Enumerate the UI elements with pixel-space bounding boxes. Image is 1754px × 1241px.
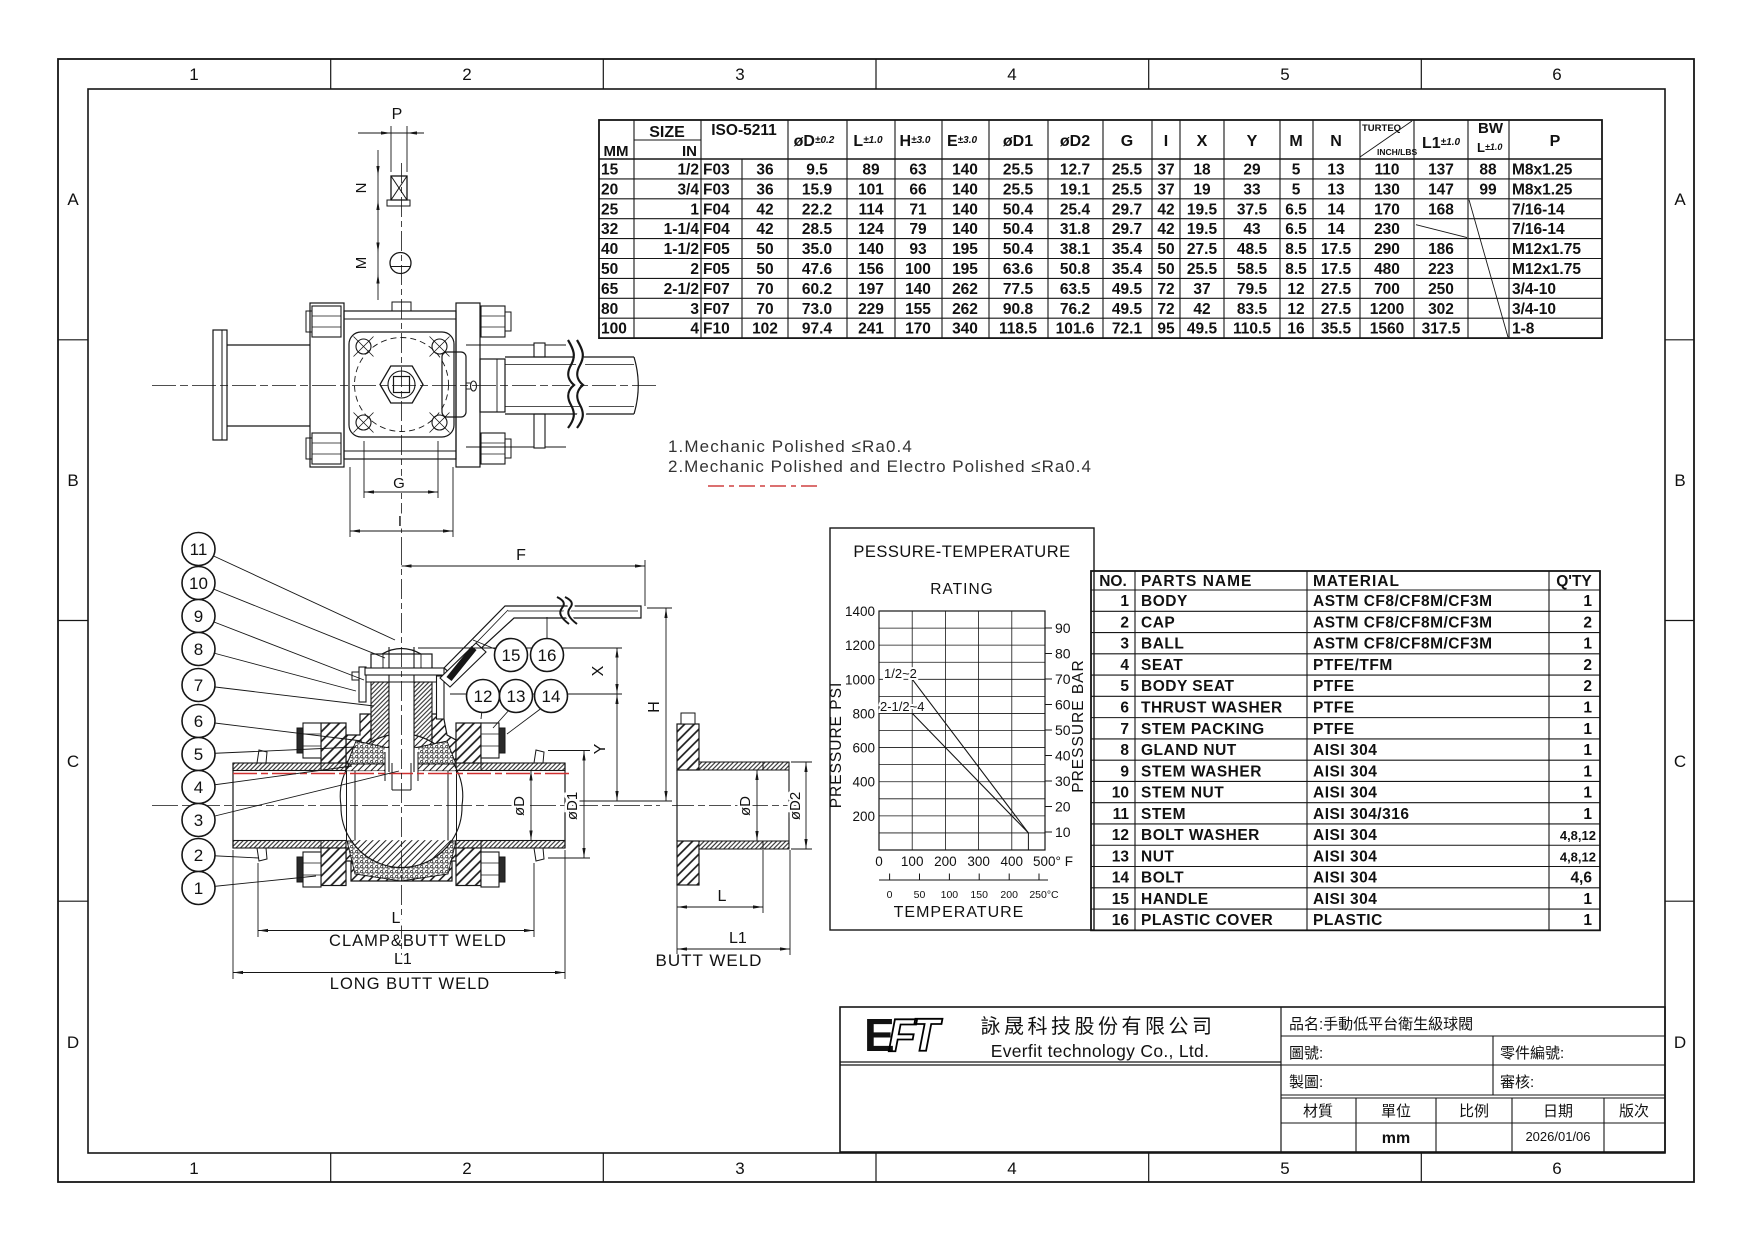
svg-text:250: 250 bbox=[1428, 281, 1454, 298]
svg-text:M: M bbox=[1289, 133, 1302, 150]
svg-text:118.5: 118.5 bbox=[999, 321, 1037, 338]
svg-text:71: 71 bbox=[909, 201, 927, 218]
svg-text:42: 42 bbox=[756, 221, 773, 238]
chart rating curve half to two inch bbox=[912, 679, 1028, 833]
svg-text:13: 13 bbox=[1112, 848, 1130, 865]
svg-text:L: L bbox=[718, 888, 727, 905]
svg-text:X: X bbox=[1197, 133, 1208, 150]
svg-text:700: 700 bbox=[1374, 281, 1400, 298]
svg-text:10: 10 bbox=[1055, 824, 1071, 840]
svg-text:N: N bbox=[353, 183, 370, 194]
svg-text:ISO-5211: ISO-5211 bbox=[711, 122, 777, 139]
svg-text:80: 80 bbox=[1055, 646, 1071, 662]
svg-text:I: I bbox=[398, 513, 402, 530]
svg-text:43: 43 bbox=[1243, 221, 1261, 238]
svg-text:5: 5 bbox=[1292, 181, 1301, 198]
svg-text:35.4: 35.4 bbox=[1112, 241, 1143, 258]
svg-text:27.5: 27.5 bbox=[1187, 241, 1218, 258]
svg-text:1: 1 bbox=[1583, 763, 1592, 780]
svg-text:F04: F04 bbox=[703, 201, 730, 218]
svg-text:25.5: 25.5 bbox=[1187, 261, 1218, 278]
top view right ferrule bbox=[534, 343, 545, 357]
svg-text:1/2: 1/2 bbox=[677, 161, 699, 178]
svg-text:1: 1 bbox=[1583, 891, 1592, 908]
svg-text:ASTM CF8/CF8M/CF3M: ASTM CF8/CF8M/CF3M bbox=[1313, 636, 1493, 653]
front view seat contact lines bbox=[346, 771, 348, 841]
svg-text:300: 300 bbox=[967, 854, 990, 869]
svg-text:600: 600 bbox=[852, 741, 875, 756]
svg-text:76.2: 76.2 bbox=[1060, 301, 1090, 318]
svg-text:17.5: 17.5 bbox=[1321, 261, 1352, 278]
svg-text:PARTS NAME: PARTS NAME bbox=[1141, 573, 1252, 590]
svg-text:2: 2 bbox=[1120, 614, 1129, 631]
svg-text:øD1: øD1 bbox=[1003, 133, 1033, 150]
svg-text:27.5: 27.5 bbox=[1321, 281, 1352, 298]
svg-text:HANDLE: HANDLE bbox=[1141, 891, 1209, 908]
svg-text:50: 50 bbox=[756, 241, 773, 258]
svg-text:2-1/2: 2-1/2 bbox=[664, 281, 699, 298]
front view handle break symbol bbox=[558, 598, 578, 623]
svg-text:2026/01/06: 2026/01/06 bbox=[1525, 1129, 1590, 1144]
BW column strike diagonal bbox=[1469, 200, 1508, 337]
svg-text:AISI 304: AISI 304 bbox=[1313, 785, 1377, 802]
svg-text:材質: 材質 bbox=[1303, 1102, 1333, 1120]
svg-text:AISI 304: AISI 304 bbox=[1313, 827, 1377, 844]
svg-text:72: 72 bbox=[1157, 301, 1174, 318]
svg-text:6: 6 bbox=[1120, 699, 1129, 716]
title block outer box bbox=[840, 1007, 1665, 1152]
svg-text:262: 262 bbox=[952, 301, 978, 318]
svg-text:INCH/LBS: INCH/LBS bbox=[1377, 147, 1417, 157]
svg-text:7: 7 bbox=[1120, 721, 1129, 738]
title block drafting row bbox=[1281, 1094, 1665, 1096]
top view G dimension bbox=[363, 441, 365, 498]
svg-text:øD: øD bbox=[511, 796, 528, 816]
svg-text:NO.: NO. bbox=[1099, 573, 1127, 590]
svg-text:15: 15 bbox=[601, 161, 619, 178]
top view N stem square symbol bbox=[391, 176, 407, 200]
svg-text:250°C: 250°C bbox=[1029, 889, 1059, 901]
svg-text:48.5: 48.5 bbox=[1237, 241, 1268, 258]
svg-text:1400: 1400 bbox=[845, 604, 875, 619]
front view lower body bbox=[346, 848, 456, 881]
svg-text:5: 5 bbox=[1292, 161, 1301, 178]
top view handle bracket bbox=[442, 352, 466, 417]
balloon reference line 15 16 bbox=[418, 647, 622, 649]
svg-text:25.4: 25.4 bbox=[1060, 201, 1091, 218]
svg-text:19: 19 bbox=[1193, 181, 1211, 198]
svg-text:B: B bbox=[67, 471, 78, 490]
svg-text:1: 1 bbox=[1583, 785, 1592, 802]
butt weld fitting pipe bbox=[699, 762, 789, 770]
front view upper body right bbox=[432, 714, 456, 771]
svg-text:3: 3 bbox=[735, 65, 744, 84]
svg-text:50: 50 bbox=[601, 261, 618, 278]
svg-text:X: X bbox=[590, 665, 607, 676]
svg-text:50: 50 bbox=[1055, 722, 1071, 738]
svg-text:197: 197 bbox=[858, 281, 884, 298]
svg-text:11: 11 bbox=[1113, 806, 1130, 823]
front view stem bbox=[389, 644, 414, 780]
parts table grid bbox=[1091, 571, 1600, 930]
svg-text:223: 223 bbox=[1428, 261, 1454, 278]
butt weld fitting flange bbox=[677, 724, 699, 770]
svg-text:詠晟科技股份有限公司: 詠晟科技股份有限公司 bbox=[981, 1015, 1216, 1038]
svg-text:19.5: 19.5 bbox=[1187, 221, 1218, 238]
svg-text:100: 100 bbox=[601, 321, 627, 338]
svg-text:14: 14 bbox=[542, 687, 561, 706]
top view right cap bolts bbox=[481, 306, 505, 337]
svg-text:審核:: 審核: bbox=[1500, 1074, 1534, 1091]
svg-text:M: M bbox=[353, 257, 370, 270]
top view M stem circle symbol bbox=[390, 253, 411, 274]
svg-text:47.6: 47.6 bbox=[802, 261, 833, 278]
svg-text:C: C bbox=[67, 752, 79, 771]
butt weld fitting oD2 dimension bbox=[791, 761, 812, 763]
svg-text:290: 290 bbox=[1374, 241, 1400, 258]
svg-text:262: 262 bbox=[952, 281, 978, 298]
svg-text:35.0: 35.0 bbox=[802, 241, 832, 258]
svg-text:29.7: 29.7 bbox=[1112, 221, 1142, 238]
svg-text:95: 95 bbox=[1157, 321, 1175, 338]
svg-text:14: 14 bbox=[1327, 221, 1345, 238]
svg-text:øD2: øD2 bbox=[1060, 133, 1090, 150]
svg-text:20: 20 bbox=[1055, 799, 1071, 815]
top view body bbox=[344, 311, 456, 459]
svg-text:65: 65 bbox=[601, 281, 619, 298]
title block product name row bbox=[1281, 1035, 1665, 1037]
svg-text:PTFE/TFM: PTFE/TFM bbox=[1313, 657, 1393, 674]
svg-text:37: 37 bbox=[1157, 181, 1174, 198]
svg-text:70: 70 bbox=[756, 301, 773, 318]
svg-text:7: 7 bbox=[194, 676, 203, 695]
svg-text:12.7: 12.7 bbox=[1060, 161, 1090, 178]
front view ball arcs in bore bbox=[340, 771, 351, 841]
svg-text:15: 15 bbox=[1112, 891, 1130, 908]
svg-text:200: 200 bbox=[1000, 889, 1018, 901]
svg-text:ASTM CF8/CF8M/CF3M: ASTM CF8/CF8M/CF3M bbox=[1313, 614, 1493, 631]
svg-text:1: 1 bbox=[1583, 742, 1592, 759]
front view right cap bbox=[456, 723, 481, 763]
butt weld fitting L1 dimension bbox=[789, 850, 791, 955]
svg-text:72.1: 72.1 bbox=[1112, 321, 1143, 338]
svg-text:195: 195 bbox=[952, 241, 978, 258]
svg-text:70: 70 bbox=[1055, 671, 1071, 687]
svg-text:GLAND NUT: GLAND NUT bbox=[1141, 742, 1237, 759]
svg-text:日期: 日期 bbox=[1543, 1103, 1573, 1120]
svg-text:100: 100 bbox=[905, 261, 931, 278]
svg-text:TURTEQ: TURTEQ bbox=[1362, 123, 1401, 134]
svg-text:13: 13 bbox=[1327, 161, 1345, 178]
top view left cap bolts bbox=[312, 306, 341, 337]
svg-text:I: I bbox=[1164, 133, 1168, 150]
dimension H bbox=[665, 608, 667, 801]
svg-text:1: 1 bbox=[194, 879, 203, 898]
svg-text:F: F bbox=[516, 547, 526, 564]
svg-text:F05: F05 bbox=[703, 261, 730, 278]
svg-text:22.2: 22.2 bbox=[802, 201, 832, 218]
svg-text:TEMPERATURE: TEMPERATURE bbox=[894, 904, 1025, 921]
svg-text:42: 42 bbox=[1157, 221, 1174, 238]
butt weld fitting centerline bbox=[672, 805, 800, 807]
svg-text:6: 6 bbox=[194, 712, 203, 731]
svg-text:3/4-10: 3/4-10 bbox=[1512, 281, 1556, 298]
chart curve end drop line bbox=[1027, 833, 1029, 850]
svg-text:F03: F03 bbox=[703, 181, 730, 198]
svg-text:155: 155 bbox=[905, 301, 931, 318]
svg-text:M12x1.75: M12x1.75 bbox=[1512, 261, 1581, 278]
svg-text:186: 186 bbox=[1428, 241, 1454, 258]
svg-text:1: 1 bbox=[1583, 699, 1592, 716]
front view lower seat ring bbox=[347, 841, 456, 881]
svg-text:BUTT WELD: BUTT WELD bbox=[656, 951, 763, 970]
svg-text:STEM PACKING: STEM PACKING bbox=[1141, 721, 1265, 738]
svg-text:17.5: 17.5 bbox=[1321, 241, 1352, 258]
svg-text:302: 302 bbox=[1428, 301, 1454, 318]
svg-text:90.8: 90.8 bbox=[1003, 301, 1034, 318]
svg-text:77.5: 77.5 bbox=[1003, 281, 1034, 298]
front view upper body left bbox=[346, 714, 371, 771]
svg-text:66: 66 bbox=[909, 181, 927, 198]
svg-text:12: 12 bbox=[1112, 827, 1129, 844]
svg-text:13: 13 bbox=[507, 687, 526, 706]
svg-text:8.5: 8.5 bbox=[1285, 241, 1307, 258]
svg-text:4: 4 bbox=[194, 778, 203, 797]
svg-text:70: 70 bbox=[756, 281, 773, 298]
svg-text:229: 229 bbox=[858, 301, 884, 318]
svg-text:400: 400 bbox=[1001, 854, 1024, 869]
svg-text:32: 32 bbox=[601, 221, 618, 238]
svg-text:102: 102 bbox=[752, 321, 778, 338]
front view handle washer plate bbox=[365, 668, 444, 675]
svg-text:50.4: 50.4 bbox=[1003, 241, 1034, 258]
svg-text:5: 5 bbox=[1120, 678, 1129, 695]
svg-text:圖號:: 圖號: bbox=[1289, 1045, 1323, 1062]
svg-text:800: 800 bbox=[852, 706, 875, 721]
svg-text:20: 20 bbox=[601, 181, 618, 198]
svg-text:PTFE: PTFE bbox=[1313, 721, 1355, 738]
svg-text:37.5: 37.5 bbox=[1237, 201, 1268, 218]
svg-text:1: 1 bbox=[1583, 912, 1592, 929]
svg-text:LONG BUTT WELD: LONG BUTT WELD bbox=[330, 975, 490, 993]
dimension oD1 bbox=[583, 751, 585, 859]
svg-text:35.5: 35.5 bbox=[1321, 321, 1352, 338]
svg-text:42: 42 bbox=[1157, 201, 1174, 218]
svg-text:25.5: 25.5 bbox=[1003, 161, 1034, 178]
front view clamp lips bbox=[257, 750, 267, 763]
svg-text:31.8: 31.8 bbox=[1060, 221, 1091, 238]
balloons 1-11 bbox=[182, 533, 215, 566]
svg-text:3/4: 3/4 bbox=[677, 181, 699, 198]
svg-text:BW: BW bbox=[1478, 120, 1504, 137]
svg-text:168: 168 bbox=[1428, 201, 1454, 218]
balloon leader lines 1-11 bbox=[199, 549, 396, 640]
top view centerline horizontal bbox=[152, 385, 658, 387]
svg-text:49.5: 49.5 bbox=[1187, 321, 1218, 338]
front view stem washer plate bbox=[359, 667, 366, 702]
svg-text:øD2: øD2 bbox=[787, 792, 804, 820]
chart box bbox=[830, 528, 1094, 930]
svg-text:35.4: 35.4 bbox=[1112, 261, 1143, 278]
svg-text:42: 42 bbox=[756, 201, 773, 218]
dimension L1 long bbox=[232, 850, 234, 979]
svg-text:1200: 1200 bbox=[1370, 301, 1404, 318]
dimension X bbox=[616, 648, 618, 695]
svg-text:2: 2 bbox=[194, 846, 203, 865]
svg-text:4,8,12: 4,8,12 bbox=[1560, 849, 1596, 864]
svg-text:156: 156 bbox=[858, 261, 884, 278]
front view stem packing right bbox=[414, 682, 432, 771]
svg-text:4: 4 bbox=[690, 321, 699, 338]
svg-text:27.5: 27.5 bbox=[1321, 301, 1352, 318]
top view stem hex nut bbox=[380, 366, 423, 403]
svg-text:A: A bbox=[1674, 190, 1686, 209]
top view bolt circle dashed bbox=[355, 338, 449, 432]
svg-text:63.6: 63.6 bbox=[1003, 261, 1034, 278]
svg-text:60: 60 bbox=[1055, 697, 1071, 713]
svg-text:19.1: 19.1 bbox=[1060, 181, 1091, 198]
front view ball upper dome bbox=[346, 734, 457, 771]
svg-text:N: N bbox=[1330, 133, 1342, 150]
top view centerline vertical bbox=[401, 163, 403, 545]
front view right pipe walls bbox=[456, 763, 565, 771]
svg-text:100: 100 bbox=[901, 854, 924, 869]
dimension F bbox=[402, 565, 646, 567]
svg-text:A: A bbox=[67, 190, 79, 209]
front view gland nut bbox=[366, 681, 438, 683]
svg-text:SIZE: SIZE bbox=[649, 124, 685, 141]
svg-text:50: 50 bbox=[1157, 261, 1174, 278]
top view left tube bbox=[227, 344, 310, 346]
svg-text:3: 3 bbox=[690, 301, 699, 318]
svg-text:1.Mechanic Polished ≤Ra0.4: 1.Mechanic Polished ≤Ra0.4 bbox=[668, 437, 913, 456]
svg-text:1560: 1560 bbox=[1370, 321, 1404, 338]
svg-text:80: 80 bbox=[601, 301, 618, 318]
svg-text:øD1: øD1 bbox=[564, 792, 581, 820]
svg-text:25: 25 bbox=[601, 201, 619, 218]
chart plot grid bbox=[879, 611, 1045, 850]
svg-text:F04: F04 bbox=[703, 221, 730, 238]
svg-text:49.5: 49.5 bbox=[1112, 301, 1143, 318]
svg-text:83.5: 83.5 bbox=[1237, 301, 1268, 318]
svg-text:40: 40 bbox=[1055, 748, 1071, 764]
top view left ferrule bbox=[213, 330, 227, 440]
svg-text:1-8: 1-8 bbox=[1512, 321, 1535, 338]
svg-text:THRUST WASHER: THRUST WASHER bbox=[1141, 699, 1283, 716]
svg-text:50.4: 50.4 bbox=[1003, 221, 1034, 238]
svg-text:1: 1 bbox=[1583, 806, 1592, 823]
svg-text:4: 4 bbox=[1120, 657, 1129, 674]
svg-text:D: D bbox=[67, 1033, 79, 1052]
svg-text:38.1: 38.1 bbox=[1060, 241, 1091, 258]
svg-text:10: 10 bbox=[1112, 785, 1129, 802]
svg-text:5: 5 bbox=[1280, 1159, 1289, 1178]
svg-text:AISI 304: AISI 304 bbox=[1313, 870, 1377, 887]
svg-text:CAP: CAP bbox=[1141, 614, 1175, 631]
svg-text:6.5: 6.5 bbox=[1285, 201, 1307, 218]
svg-text:97.4: 97.4 bbox=[802, 321, 833, 338]
svg-text:D: D bbox=[1674, 1033, 1686, 1052]
front view ball lower dome bbox=[351, 841, 452, 868]
svg-text:AISI 304: AISI 304 bbox=[1313, 742, 1377, 759]
svg-text:63: 63 bbox=[909, 161, 927, 178]
svg-text:480: 480 bbox=[1374, 261, 1400, 278]
svg-text:F05: F05 bbox=[703, 241, 730, 258]
svg-text:89: 89 bbox=[862, 161, 880, 178]
svg-text:2: 2 bbox=[1583, 657, 1592, 674]
svg-text:88: 88 bbox=[1479, 161, 1497, 178]
zone divider ticks bbox=[330, 59, 332, 89]
front view vertical centerline bbox=[401, 545, 403, 955]
svg-text:28.5: 28.5 bbox=[802, 221, 833, 238]
svg-text:6: 6 bbox=[1552, 65, 1561, 84]
svg-text:1-1/2: 1-1/2 bbox=[664, 241, 699, 258]
svg-text:37: 37 bbox=[1193, 281, 1210, 298]
svg-text:CLAMP&BUTT WELD: CLAMP&BUTT WELD bbox=[329, 932, 507, 950]
balloons 12 13 14 15 16 bbox=[495, 639, 528, 672]
svg-text:101: 101 bbox=[858, 181, 884, 198]
svg-text:147: 147 bbox=[1428, 181, 1454, 198]
svg-text:品名:手動低平台衛生級球閥: 品名:手動低平台衛生級球閥 bbox=[1289, 1016, 1473, 1033]
svg-text:90: 90 bbox=[1055, 620, 1071, 636]
front view handle lever bbox=[444, 606, 641, 675]
svg-text:L1: L1 bbox=[394, 951, 412, 968]
svg-text:øD: øD bbox=[737, 796, 754, 816]
svg-text:150: 150 bbox=[970, 889, 988, 901]
svg-text:PRESSURE PSI: PRESSURE PSI bbox=[828, 682, 845, 809]
svg-text:M8x1.25: M8x1.25 bbox=[1512, 161, 1573, 178]
svg-text:BOLT: BOLT bbox=[1141, 870, 1184, 887]
svg-text:130: 130 bbox=[1374, 181, 1400, 198]
svg-text:1-1/4: 1-1/4 bbox=[664, 221, 700, 238]
dimension L clamp bbox=[257, 863, 259, 937]
svg-text:1: 1 bbox=[1120, 593, 1129, 610]
svg-text:7/16-14: 7/16-14 bbox=[1512, 201, 1565, 218]
svg-text:1000: 1000 bbox=[845, 672, 875, 687]
title block drawing number row bbox=[1281, 1064, 1665, 1066]
front view stem packing left bbox=[371, 682, 389, 771]
svg-text:36: 36 bbox=[756, 161, 774, 178]
svg-text:63.5: 63.5 bbox=[1060, 281, 1091, 298]
svg-text:單位: 單位 bbox=[1381, 1103, 1411, 1120]
chart rating curve two-half to four inch bbox=[912, 713, 1028, 833]
svg-text:MM: MM bbox=[604, 143, 629, 160]
svg-text:9.5: 9.5 bbox=[806, 161, 828, 178]
svg-text:PLASTIC COVER: PLASTIC COVER bbox=[1141, 912, 1273, 929]
svg-text:C: C bbox=[1674, 752, 1686, 771]
svg-text:Everfit technology Co., Ltd.: Everfit technology Co., Ltd. bbox=[991, 1041, 1210, 1061]
svg-text:PESSURE-TEMPERATURE: PESSURE-TEMPERATURE bbox=[853, 543, 1070, 561]
svg-text:M8x1.25: M8x1.25 bbox=[1512, 181, 1573, 198]
svg-text:BOLT WASHER: BOLT WASHER bbox=[1141, 827, 1260, 844]
svg-text:Y: Y bbox=[1247, 133, 1258, 150]
svg-text:P: P bbox=[1550, 133, 1561, 150]
svg-text:3: 3 bbox=[1120, 636, 1129, 653]
svg-text:33: 33 bbox=[1243, 181, 1261, 198]
svg-text:1: 1 bbox=[189, 65, 198, 84]
svg-text:6: 6 bbox=[1552, 1159, 1561, 1178]
svg-text:Y: Y bbox=[592, 743, 609, 754]
svg-text:L1: L1 bbox=[729, 930, 747, 947]
svg-text:2: 2 bbox=[462, 65, 471, 84]
chart celsius axis bbox=[879, 879, 1048, 881]
svg-text:230: 230 bbox=[1374, 221, 1400, 238]
front view horizontal centerline bbox=[152, 805, 660, 807]
svg-text:8.5: 8.5 bbox=[1285, 261, 1307, 278]
svg-text:42: 42 bbox=[1193, 301, 1210, 318]
svg-text:5: 5 bbox=[1280, 65, 1289, 84]
svg-text:2: 2 bbox=[1583, 614, 1592, 631]
